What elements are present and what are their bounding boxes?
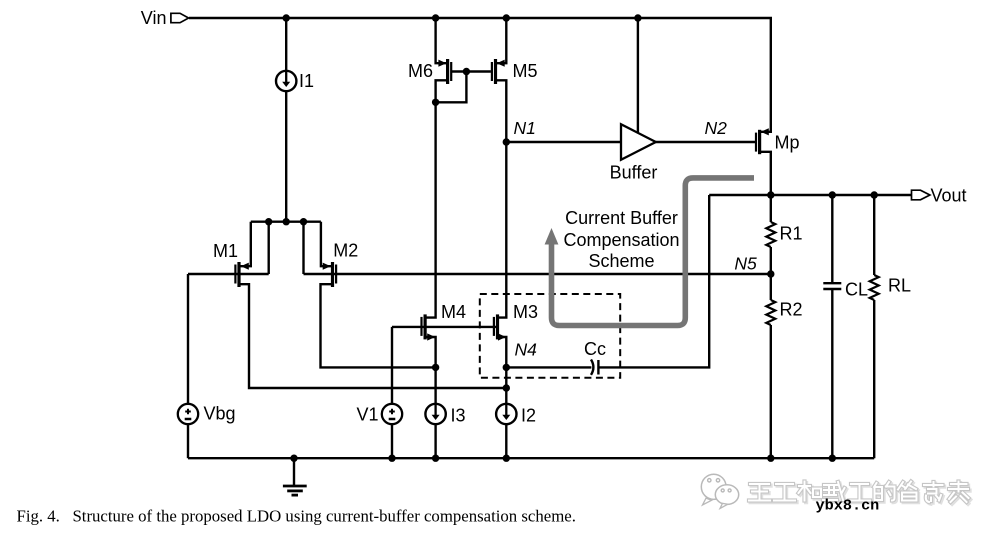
svg-text:M3: M3 — [513, 302, 538, 322]
port Vin — [171, 13, 189, 22]
wire M5 drain to N1 to M3 drain — [496, 80, 506, 317]
svg-text:N2: N2 — [705, 118, 728, 138]
node M3 source Cc — [503, 364, 510, 371]
svg-text:I2: I2 — [521, 406, 536, 426]
node M6 diode junction — [432, 99, 439, 106]
svg-text:Current Buffer: Current Buffer — [565, 208, 678, 228]
svg-text:R1: R1 — [780, 224, 803, 244]
node M6 M5 gate junction — [463, 68, 470, 75]
node Vout CL — [829, 191, 836, 198]
wire M6 drain to M4 drain — [426, 80, 447, 317]
transistor M6 — [438, 59, 451, 84]
node N5 — [767, 270, 774, 277]
wire M4 source — [426, 337, 436, 404]
svg-text:Buffer: Buffer — [610, 163, 658, 183]
transistor M4 — [422, 314, 436, 340]
node tail M1 bulk — [265, 218, 272, 225]
wire R1 to N5 to R2 — [770, 247, 772, 300]
wire I2 to ground rail — [505, 424, 507, 458]
svg-text:N1: N1 — [514, 118, 536, 138]
node top rail M6 — [432, 14, 439, 21]
node junction dots — [265, 14, 878, 462]
wire R2 to ground rail — [770, 325, 772, 458]
wire M2 bulk riser — [302, 222, 304, 274]
wire M5 source — [496, 18, 506, 63]
svg-text:Compensation: Compensation — [563, 230, 679, 250]
watermark wechat icon — [701, 474, 738, 508]
wire Mp drain to Vout rail — [761, 152, 771, 195]
node ground rail I2 — [503, 455, 510, 462]
svg-text:I3: I3 — [451, 406, 466, 426]
node ground rail gnd — [290, 455, 297, 462]
svg-text:M2: M2 — [333, 241, 358, 261]
node M4 source I3 — [432, 364, 439, 371]
node tail M2 bulk — [300, 218, 307, 225]
svg-text:RL: RL — [888, 276, 911, 296]
voltage source V1 — [382, 404, 402, 424]
wire Vout rail — [709, 194, 911, 196]
transistor M1 — [235, 262, 248, 287]
svg-text:Vbg: Vbg — [204, 404, 236, 424]
wire Cc left — [506, 366, 591, 368]
node ground rail R2 — [767, 455, 774, 462]
svg-text:M4: M4 — [441, 302, 466, 322]
svg-text:Fig. 4. Structure of the pro: Fig. 4. Structure of the proposed LDO us… — [17, 506, 576, 525]
compensation path arrow (gray) — [545, 178, 754, 326]
svg-text:R2: R2 — [780, 300, 803, 320]
wire N5 feedback to M2 gate — [304, 273, 771, 275]
svg-text:ybx8.cn: ybx8.cn — [816, 497, 880, 515]
wire RL top — [873, 195, 875, 275]
svg-text:N5: N5 — [734, 254, 757, 274]
wire M2 source — [321, 222, 331, 267]
wire top Vin rail — [189, 18, 771, 132]
wire buffer supply — [637, 18, 639, 133]
capacitor Cc — [591, 360, 598, 375]
node top rail buffer — [634, 14, 641, 21]
svg-text:Vout: Vout — [931, 186, 967, 206]
wire M2 drain — [321, 284, 436, 367]
wire V1 top — [391, 327, 393, 404]
wire M1 bulk riser — [268, 222, 270, 274]
wire N1 to buffer — [506, 141, 621, 143]
svg-text:I1: I1 — [299, 71, 314, 91]
wire bottom ground rail — [188, 457, 874, 459]
svg-text:N4: N4 — [515, 340, 538, 360]
wire Vbg bottom — [187, 424, 189, 458]
resistor R2 — [766, 300, 775, 325]
node N1 — [503, 138, 510, 145]
wire RL bottom — [873, 300, 875, 458]
ground — [283, 486, 307, 495]
node M3 source I2 — [503, 384, 510, 391]
node top rail I1 — [283, 14, 290, 21]
wire M6 gate to M5 gate — [452, 70, 491, 72]
dashed compensation box — [480, 294, 620, 378]
wire M1 gate and bulk — [188, 273, 269, 275]
op-amp buffer U1 — [621, 124, 656, 160]
node Vout Mp drain — [767, 191, 774, 198]
wire Vbg top — [187, 274, 189, 404]
node Vout RL — [871, 191, 878, 198]
node tail I1 — [283, 218, 290, 225]
wire CL top — [831, 195, 833, 283]
transistor M3 — [494, 314, 506, 340]
wire Cc right riser — [599, 195, 709, 367]
wire M6 source — [436, 18, 447, 63]
wire Vout to R1 — [770, 195, 772, 222]
wire M1 drain long — [240, 284, 506, 388]
transistor M2 — [323, 262, 336, 287]
wire V1 bottom — [391, 424, 393, 458]
svg-text:CL: CL — [845, 280, 868, 300]
svg-text:V1: V1 — [356, 405, 378, 425]
resistor R1 — [766, 222, 775, 247]
wire M3 source column — [498, 337, 506, 404]
wire M6 diode link — [437, 72, 467, 103]
capacitor CL — [823, 283, 841, 289]
transistor M5 — [492, 59, 505, 84]
port Vout — [912, 190, 930, 200]
node ground rail CL — [829, 455, 836, 462]
wire CL bottom — [831, 289, 833, 458]
svg-text:M1: M1 — [213, 241, 238, 261]
current source I3 — [425, 404, 445, 424]
current source I1 — [276, 71, 296, 91]
svg-text:Cc: Cc — [584, 339, 606, 359]
wire M1 source — [240, 222, 250, 267]
voltage source Vbg — [178, 404, 198, 424]
wire diff pair tail rail — [251, 220, 321, 222]
wire V1 to M4 M3 gates — [392, 326, 497, 328]
svg-text:M5: M5 — [513, 61, 538, 81]
node ground rail I3 — [432, 455, 439, 462]
wire N2 buffer to Mp gate — [656, 141, 756, 143]
svg-text:Mp: Mp — [775, 133, 800, 153]
transistor Mp — [756, 128, 769, 154]
current source I2 — [496, 404, 516, 424]
wire I1 branch top — [285, 18, 287, 71]
wire I3 to ground rail — [434, 424, 436, 458]
node top rail M5 — [503, 14, 510, 21]
resistor RL — [870, 275, 879, 300]
wire ground stub — [293, 458, 295, 485]
wire I1 to tail — [285, 91, 287, 221]
svg-text:Vin: Vin — [141, 8, 167, 28]
svg-text:Scheme: Scheme — [588, 251, 654, 271]
node ground rail V1 — [388, 455, 395, 462]
svg-text:M6: M6 — [408, 61, 433, 81]
